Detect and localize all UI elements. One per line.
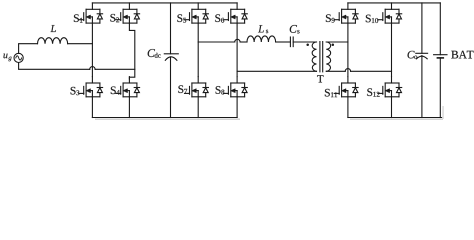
- transistor S10: [366, 3, 402, 23]
- wire: hop to Ls: [240, 41, 247, 43]
- label Cs: [290, 25, 300, 33]
- transistor S1: [74, 3, 103, 23]
- ac source u_g: [14, 53, 23, 62]
- capacitor Co: [416, 3, 428, 118]
- wire: primary bottom to leg4: [237, 70, 316, 72]
- transistor S7: [178, 77, 208, 97]
- wire: crossover hop over leg5: [345, 69, 350, 72]
- transformer T primary winding: [312, 42, 316, 71]
- label Cdc: [148, 49, 161, 58]
- shadow under bottom rail left: [95, 119, 240, 120]
- wire: inductor to leg1 midpoint: [68, 43, 93, 45]
- shadow right of battery lead: [442, 106, 443, 119]
- wire: secondary bottom to leg6: [351, 70, 392, 72]
- wire: leg3 midpoint to series branch: [198, 41, 235, 43]
- node: primary phase dot: [306, 44, 309, 47]
- label Ls: [258, 25, 268, 33]
- wire: ac return to leg2 riser: [95, 68, 135, 70]
- wire: top dc rail bridges 1-2: [92, 2, 237, 4]
- wire: S8 source to bottom rail: [236, 97, 238, 118]
- transformer T secondary winding: [326, 42, 330, 71]
- wire: Ls to Cs: [276, 41, 291, 43]
- wire: leg2 riser with jogs S2-S4: [129, 23, 134, 79]
- label T: [317, 75, 323, 82]
- transistor S4: [111, 77, 140, 97]
- wire: bottom dc rail bridges 1-2: [92, 117, 237, 119]
- wire: leg6 riser S10-S12: [391, 23, 393, 77]
- wire: S12 source to bottom rail: [391, 97, 393, 118]
- transistor S3: [71, 77, 103, 97]
- transistor S5: [177, 3, 208, 23]
- inductor Ls: [247, 36, 276, 42]
- wire: bottom rail bridge 3 to battery: [348, 117, 442, 119]
- inductor L: [38, 38, 68, 44]
- wire: top rail bridge 3 to battery: [348, 2, 440, 4]
- wire: S4 source to bottom rail: [128, 97, 130, 118]
- wire: leg3 riser S5-S7: [197, 23, 199, 77]
- transistor S2: [110, 3, 139, 23]
- transistor S6: [215, 3, 247, 23]
- transistor S12: [367, 77, 401, 97]
- wire: secondary top to leg5: [326, 41, 348, 43]
- label L: [50, 25, 55, 32]
- wire: source top lead: [19, 44, 38, 54]
- transistor S8: [216, 77, 248, 97]
- wire: S11 source to bottom rail: [347, 97, 349, 118]
- wire: leg4 riser S6-S8: [236, 23, 238, 77]
- capacitor Cs: [290, 37, 293, 47]
- wire: secondary bottom lead: [326, 70, 345, 72]
- capacitor Cdc: [164, 3, 178, 118]
- transistor S9: [326, 3, 358, 23]
- label BAT: [451, 51, 473, 59]
- wire: Cs to transformer primary: [293, 41, 316, 43]
- label Co: [408, 51, 418, 59]
- battery BAT: [434, 3, 447, 118]
- wire: leg5 riser S9-S11: [347, 23, 349, 77]
- wire: crossover hop over leg1: [90, 67, 95, 70]
- transistor S11: [325, 77, 358, 98]
- label u_g: [3, 54, 11, 62]
- wire: S7 source to bottom rail: [197, 97, 199, 118]
- wire: leg1 riser S1-S3: [91, 23, 93, 77]
- wire: source bottom lead: [19, 63, 90, 70]
- wire: crossover hop over leg4: [235, 39, 240, 42]
- node: secondary phase dot: [332, 44, 335, 47]
- shadow under bottom rail right: [350, 119, 443, 120]
- wire: S3 source to bottom rail: [91, 97, 93, 118]
- transformer T core: [320, 42, 323, 72]
